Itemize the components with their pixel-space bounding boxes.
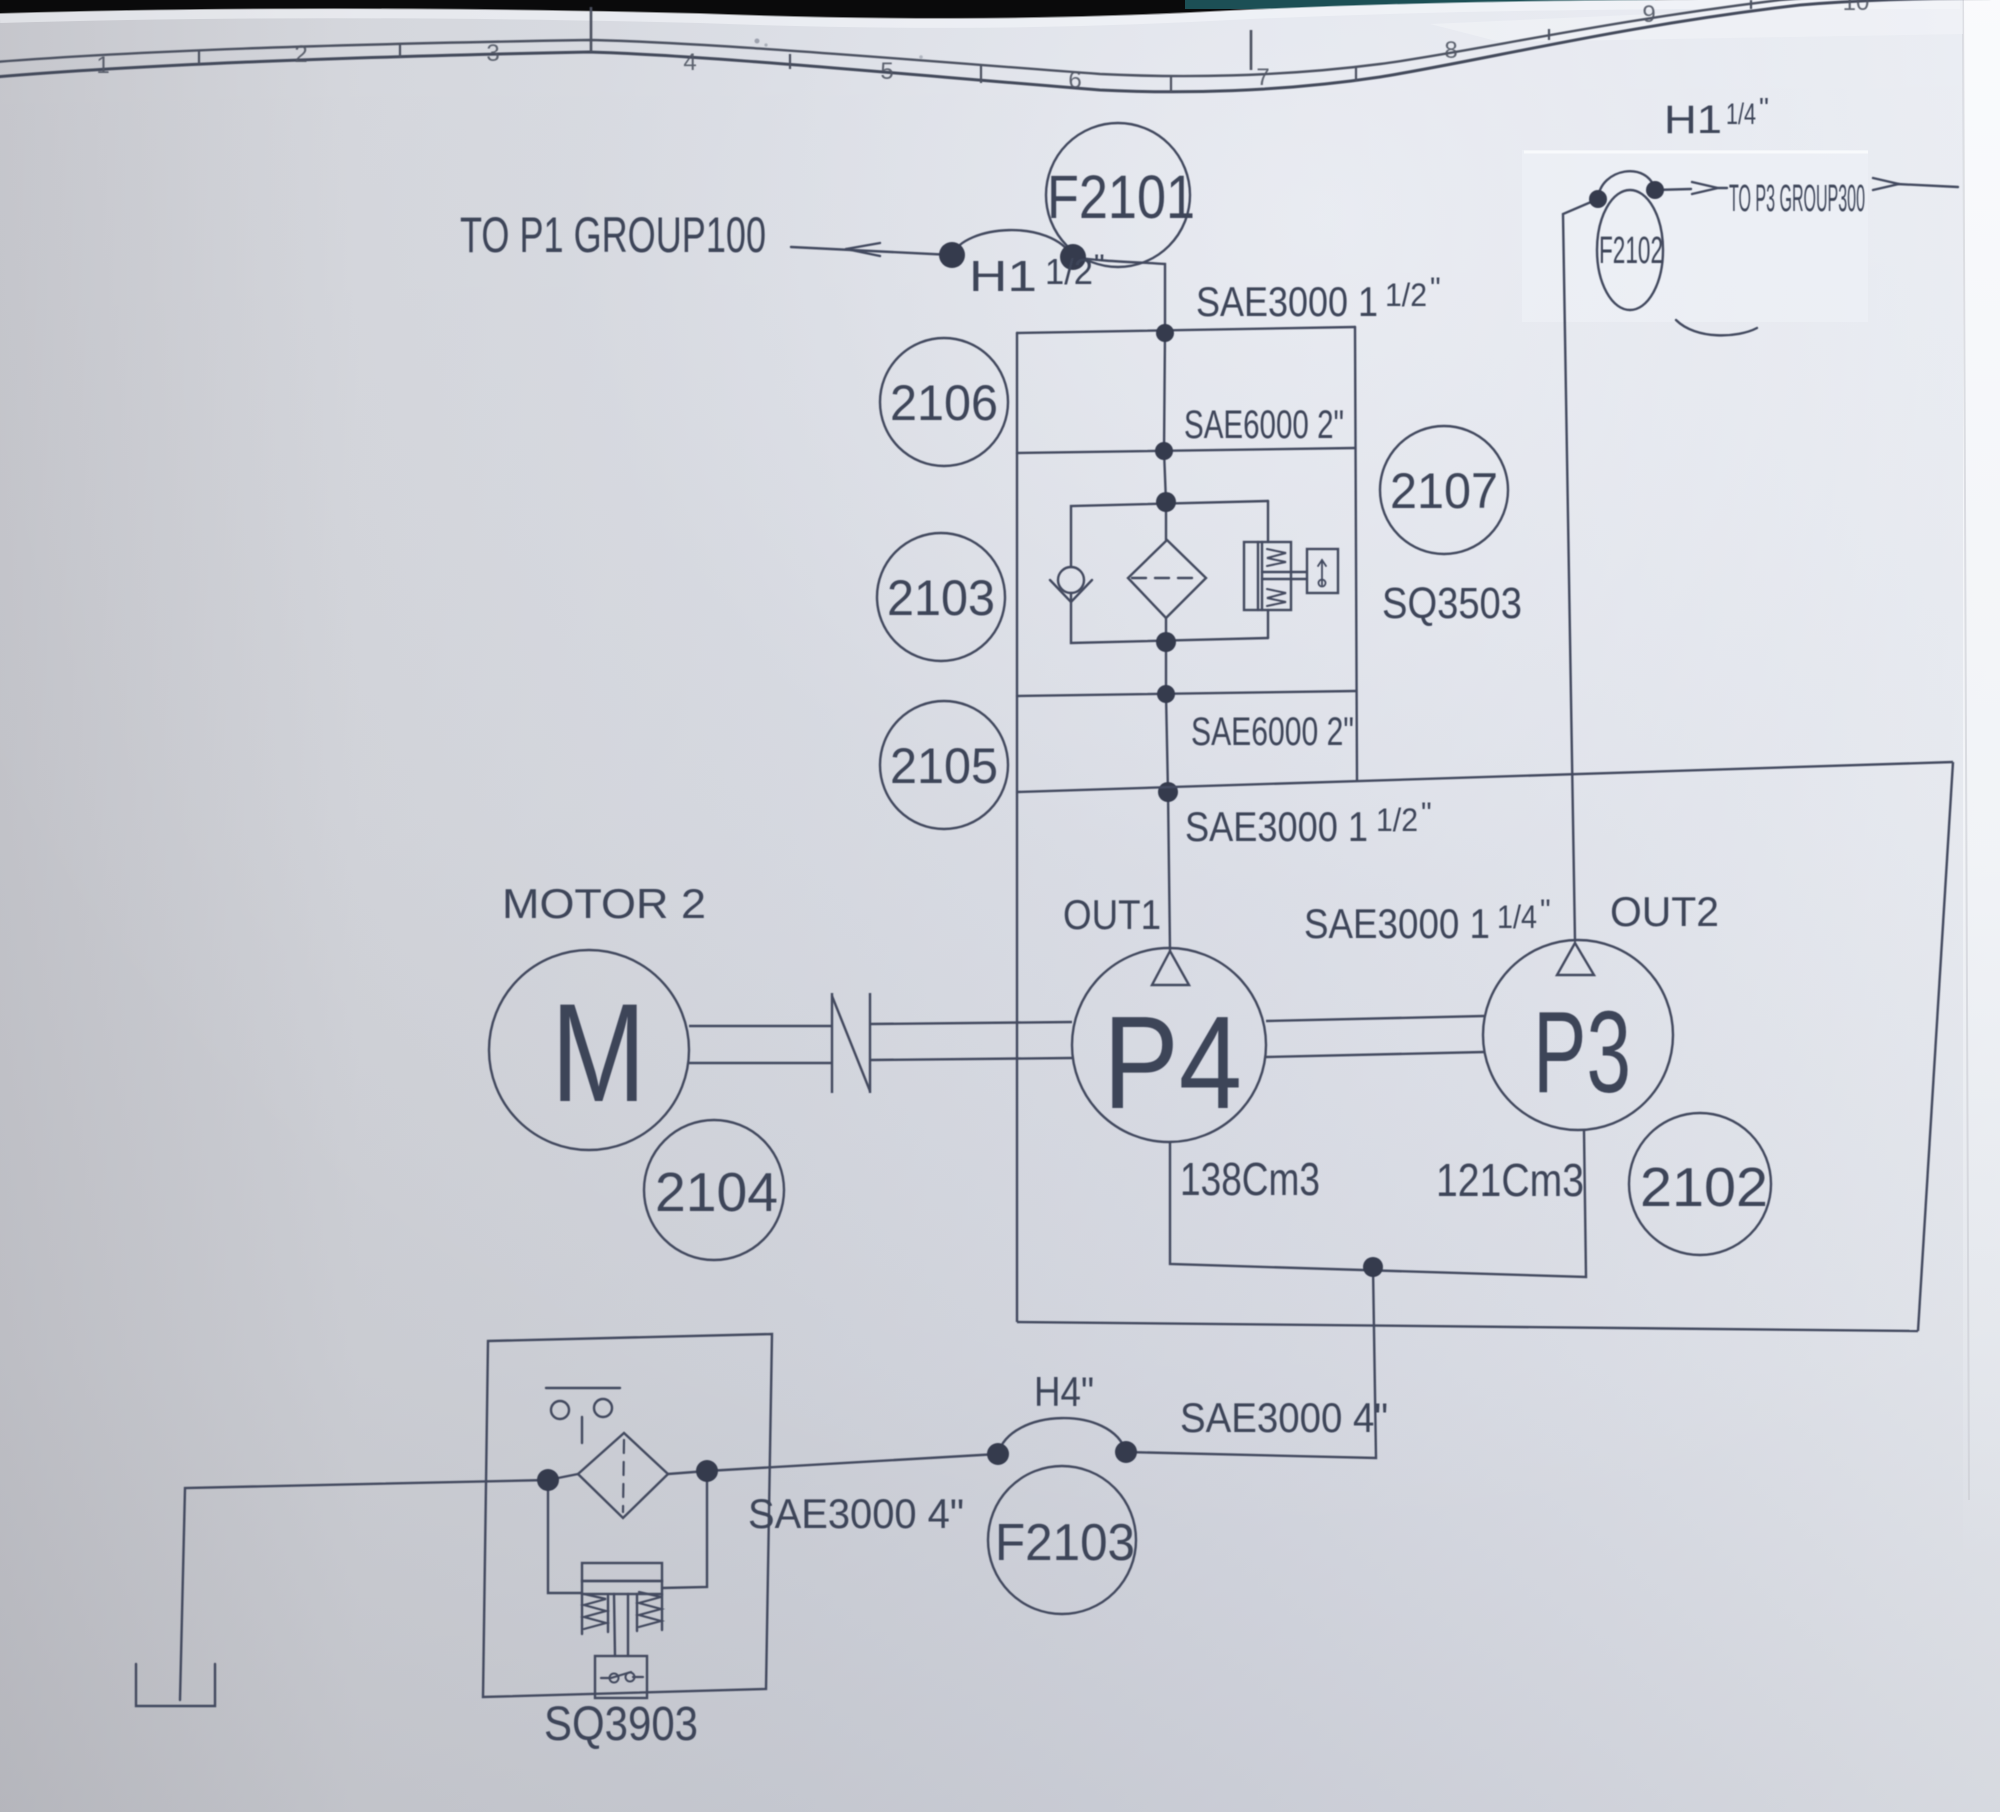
- wire: filter to tank pipe: [180, 1480, 548, 1700]
- manifold divider SAE6000 upper: [1017, 448, 1355, 453]
- ruler ticks: [199, 0, 1751, 92]
- svg-text:6: 6: [1068, 67, 1081, 94]
- svg-text:TO P1 GROUP100: TO P1 GROUP100: [460, 207, 766, 263]
- balloon 2104: [644, 1120, 784, 1260]
- ruler upper border line: [0, 0, 1880, 76]
- svg-text:138Cm3: 138Cm3: [1180, 1153, 1320, 1205]
- node: manifold inlet junction: [1156, 324, 1174, 342]
- spring cage sides: [581, 1594, 583, 1634]
- filter bypass loop top: [1071, 501, 1268, 567]
- SQ3903 box: [483, 1334, 772, 1697]
- svg-text:P3: P3: [1533, 987, 1631, 1117]
- node: hose H1 1/4 left end: [1589, 190, 1607, 208]
- centre mark left: [590, 7, 593, 52]
- node: hose H4 right end: [1115, 1441, 1137, 1463]
- wire: arrow line to P1 GROUP100: [791, 247, 952, 255]
- enclosure bottom edge: [1017, 1322, 1918, 1331]
- wire: H4 left to SQ3903 filter: [707, 1454, 998, 1471]
- wire after label with second arrowhead: [1873, 178, 1899, 190]
- svg-text:SAE6000 2": SAE6000 2": [1191, 710, 1354, 754]
- dust speck: [755, 39, 760, 44]
- wire: hose to P3 OUT2 drop: [1563, 199, 1598, 941]
- svg-text:H1: H1: [969, 252, 1037, 301]
- wire: centre line through manifold: [1164, 333, 1166, 502]
- pump P4 outlet triangle: [1152, 951, 1189, 985]
- pump P3 circle: [1483, 940, 1673, 1130]
- svg-text:5: 5: [880, 58, 893, 85]
- svg-text:2103: 2103: [887, 570, 995, 626]
- right paper edge bright strip: [1963, 0, 2000, 1560]
- node: hose H1 1/2 left end: [939, 242, 965, 268]
- filter bypass loop bottom: [1071, 593, 1268, 643]
- svg-text:9: 9: [1642, 1, 1655, 28]
- indicator piston rod: [1262, 571, 1306, 573]
- wire: hose right to arrow: [1655, 189, 1691, 190]
- glare patch near TO P3 GROUP300: [1522, 150, 1868, 322]
- centre mark right: [1250, 30, 1253, 70]
- gauge F2103 circle: [988, 1466, 1136, 1614]
- breather stem: [581, 1417, 583, 1443]
- svg-text:": ": [1759, 92, 1769, 123]
- node: SAE6000 upper junction: [1155, 442, 1173, 460]
- balloon 2102: [1629, 1113, 1771, 1255]
- node: SQ3903 filter outlet: [696, 1460, 718, 1482]
- svg-text:1/2: 1/2: [1376, 802, 1418, 838]
- pressure switch box SQ3903: [595, 1656, 647, 1698]
- shaft lines M to coupling: [689, 1025, 832, 1027]
- drain junction dot: [1363, 1257, 1383, 1277]
- shaft lines P4 to P3: [1266, 1016, 1484, 1021]
- svg-text:3: 3: [486, 40, 499, 67]
- svg-text:F2101: F2101: [1047, 163, 1195, 231]
- svg-text:1/2: 1/2: [1385, 277, 1427, 313]
- relief valve springs: [584, 1594, 606, 1629]
- svg-text:H1: H1: [1664, 98, 1722, 142]
- svg-text:2102: 2102: [1640, 1156, 1768, 1218]
- svg-text:SQ3503: SQ3503: [1382, 579, 1522, 628]
- manifold box left edge (outer enclosure left): [1016, 333, 1018, 792]
- svg-text:TO P3 GROUP300: TO P3 GROUP300: [1729, 178, 1865, 220]
- filter diamond SQ3903: [578, 1433, 668, 1518]
- svg-text:": ": [1540, 894, 1551, 927]
- pump P3 outlet triangle: [1557, 943, 1594, 975]
- relief valve branch right: [662, 1471, 707, 1588]
- svg-text:F2102: F2102: [1599, 230, 1663, 272]
- pump P4 circle: [1072, 948, 1266, 1142]
- svg-text:2104: 2104: [655, 1161, 778, 1223]
- svg-text:M: M: [551, 974, 646, 1131]
- svg-text:H4": H4": [1034, 1368, 1094, 1415]
- svg-text:P4: P4: [1103, 989, 1242, 1136]
- svg-text:MOTOR 2: MOTOR 2: [502, 880, 706, 927]
- svg-text:": ": [1430, 272, 1441, 305]
- enclosure right edge: [1918, 762, 1953, 1331]
- breather circles: [551, 1401, 569, 1419]
- svg-text:SAE6000 2": SAE6000 2": [1184, 403, 1344, 447]
- clogging indicator SQ3503: connections: [1267, 501, 1269, 542]
- bright paper above border top-right: [1430, 0, 1963, 42]
- balloon 2107: [1380, 426, 1508, 554]
- svg-text:2105: 2105: [890, 738, 998, 794]
- node: filter bypass top junction: [1156, 492, 1176, 512]
- node: manifold outlet junction: [1158, 782, 1178, 802]
- relief valve piston box: [582, 1563, 662, 1581]
- svg-text:": ": [1094, 249, 1105, 282]
- svg-text:1/4: 1/4: [1726, 98, 1756, 131]
- wire: P4 drain: [1170, 1131, 1586, 1277]
- svg-text:2106: 2106: [890, 375, 998, 431]
- coupling diagonal: [832, 996, 870, 1091]
- teal object glimpse top right: [1185, 0, 1655, 9]
- wire: manifold to pump P4: [1168, 792, 1170, 950]
- check valve 2103 (circle + seat): [1058, 567, 1084, 593]
- svg-text:SAE3000 1: SAE3000 1: [1185, 803, 1368, 850]
- svg-text:2: 2: [294, 41, 307, 68]
- node: hose H1 1/2 right end: [1060, 244, 1086, 270]
- motor M circle: [489, 950, 689, 1150]
- svg-text:": ": [1421, 797, 1432, 830]
- node: hose H1 1/4 right end: [1646, 181, 1664, 199]
- balloon 2106: [880, 338, 1008, 466]
- hose H4 arc: [998, 1418, 1126, 1454]
- svg-text:SQ3903: SQ3903: [544, 1698, 698, 1751]
- indicator body: [1244, 542, 1291, 610]
- svg-text:1/2: 1/2: [1045, 251, 1093, 292]
- gauge F2102 ellipse: [1597, 190, 1663, 310]
- svg-text:2107: 2107: [1390, 463, 1498, 519]
- gauge F2101 circle: [1046, 123, 1190, 267]
- ruler numbers: [96, 0, 1869, 94]
- switch glyph: [601, 1672, 643, 1678]
- svg-text:1: 1: [96, 52, 109, 79]
- manifold box right edge: [1355, 327, 1357, 780]
- node: filter bypass bottom junction: [1156, 632, 1176, 652]
- manifold divider SAE6000 lower: [1017, 691, 1356, 696]
- pressure switch box: [1307, 549, 1338, 593]
- paper curled top edge highlight: [0, 4, 1960, 23]
- enclosure top edge: [1017, 762, 1953, 792]
- relief valve branch left: [548, 1480, 582, 1593]
- filter diamond: [1128, 540, 1206, 618]
- stray arc under F2102: [1676, 320, 1757, 335]
- indicator springs: [1267, 549, 1286, 566]
- hose H1 1/2 arc: [952, 230, 1073, 257]
- arrowhead to P3 GROUP300: [1692, 182, 1727, 194]
- node: SQ3903 filter inlet: [537, 1469, 559, 1491]
- wire through filter: [548, 1474, 578, 1480]
- svg-text:1/4: 1/4: [1497, 899, 1537, 935]
- svg-text:7: 7: [1256, 64, 1269, 91]
- balloon 2105: [880, 701, 1008, 829]
- shaft lines coupling to P4: [870, 1022, 1072, 1024]
- photo background black band: [0, 0, 2000, 60]
- svg-text:F2103: F2103: [995, 1514, 1135, 1572]
- svg-text:SAE3000 1: SAE3000 1: [1304, 900, 1490, 947]
- svg-text:10: 10: [1843, 0, 1870, 16]
- svg-text:4: 4: [683, 49, 696, 76]
- node: hose H4 left end: [987, 1443, 1009, 1465]
- svg-text:OUT2: OUT2: [1610, 888, 1719, 935]
- manifold box top edge: [1017, 327, 1355, 333]
- svg-text:121Cm3: 121Cm3: [1436, 1154, 1584, 1206]
- balloon 2103: [877, 533, 1005, 661]
- svg-text:SAE3000 1: SAE3000 1: [1196, 278, 1378, 325]
- svg-text:SAE3000 4": SAE3000 4": [1180, 1394, 1388, 1441]
- arrowhead to P1 (open, pointing left): [846, 243, 880, 256]
- coupling bars: [831, 993, 833, 1093]
- node: SAE6000 lower junction: [1157, 685, 1175, 703]
- enclosure left edge: [1016, 792, 1018, 1322]
- wire: hose to F2101 drop: [1073, 257, 1165, 333]
- svg-text:OUT1: OUT1: [1063, 891, 1161, 938]
- wire: drain junction down to H4: [1126, 1267, 1376, 1458]
- tank symbol: [136, 1664, 215, 1706]
- breather line: [546, 1387, 620, 1389]
- svg-text:8: 8: [1444, 37, 1457, 64]
- rod to pressure switch: [614, 1594, 615, 1656]
- svg-text:SAE3000 4": SAE3000 4": [748, 1490, 964, 1537]
- hose H1 1/4 arc: [1598, 171, 1655, 199]
- ruler lower border line: [0, 0, 1990, 92]
